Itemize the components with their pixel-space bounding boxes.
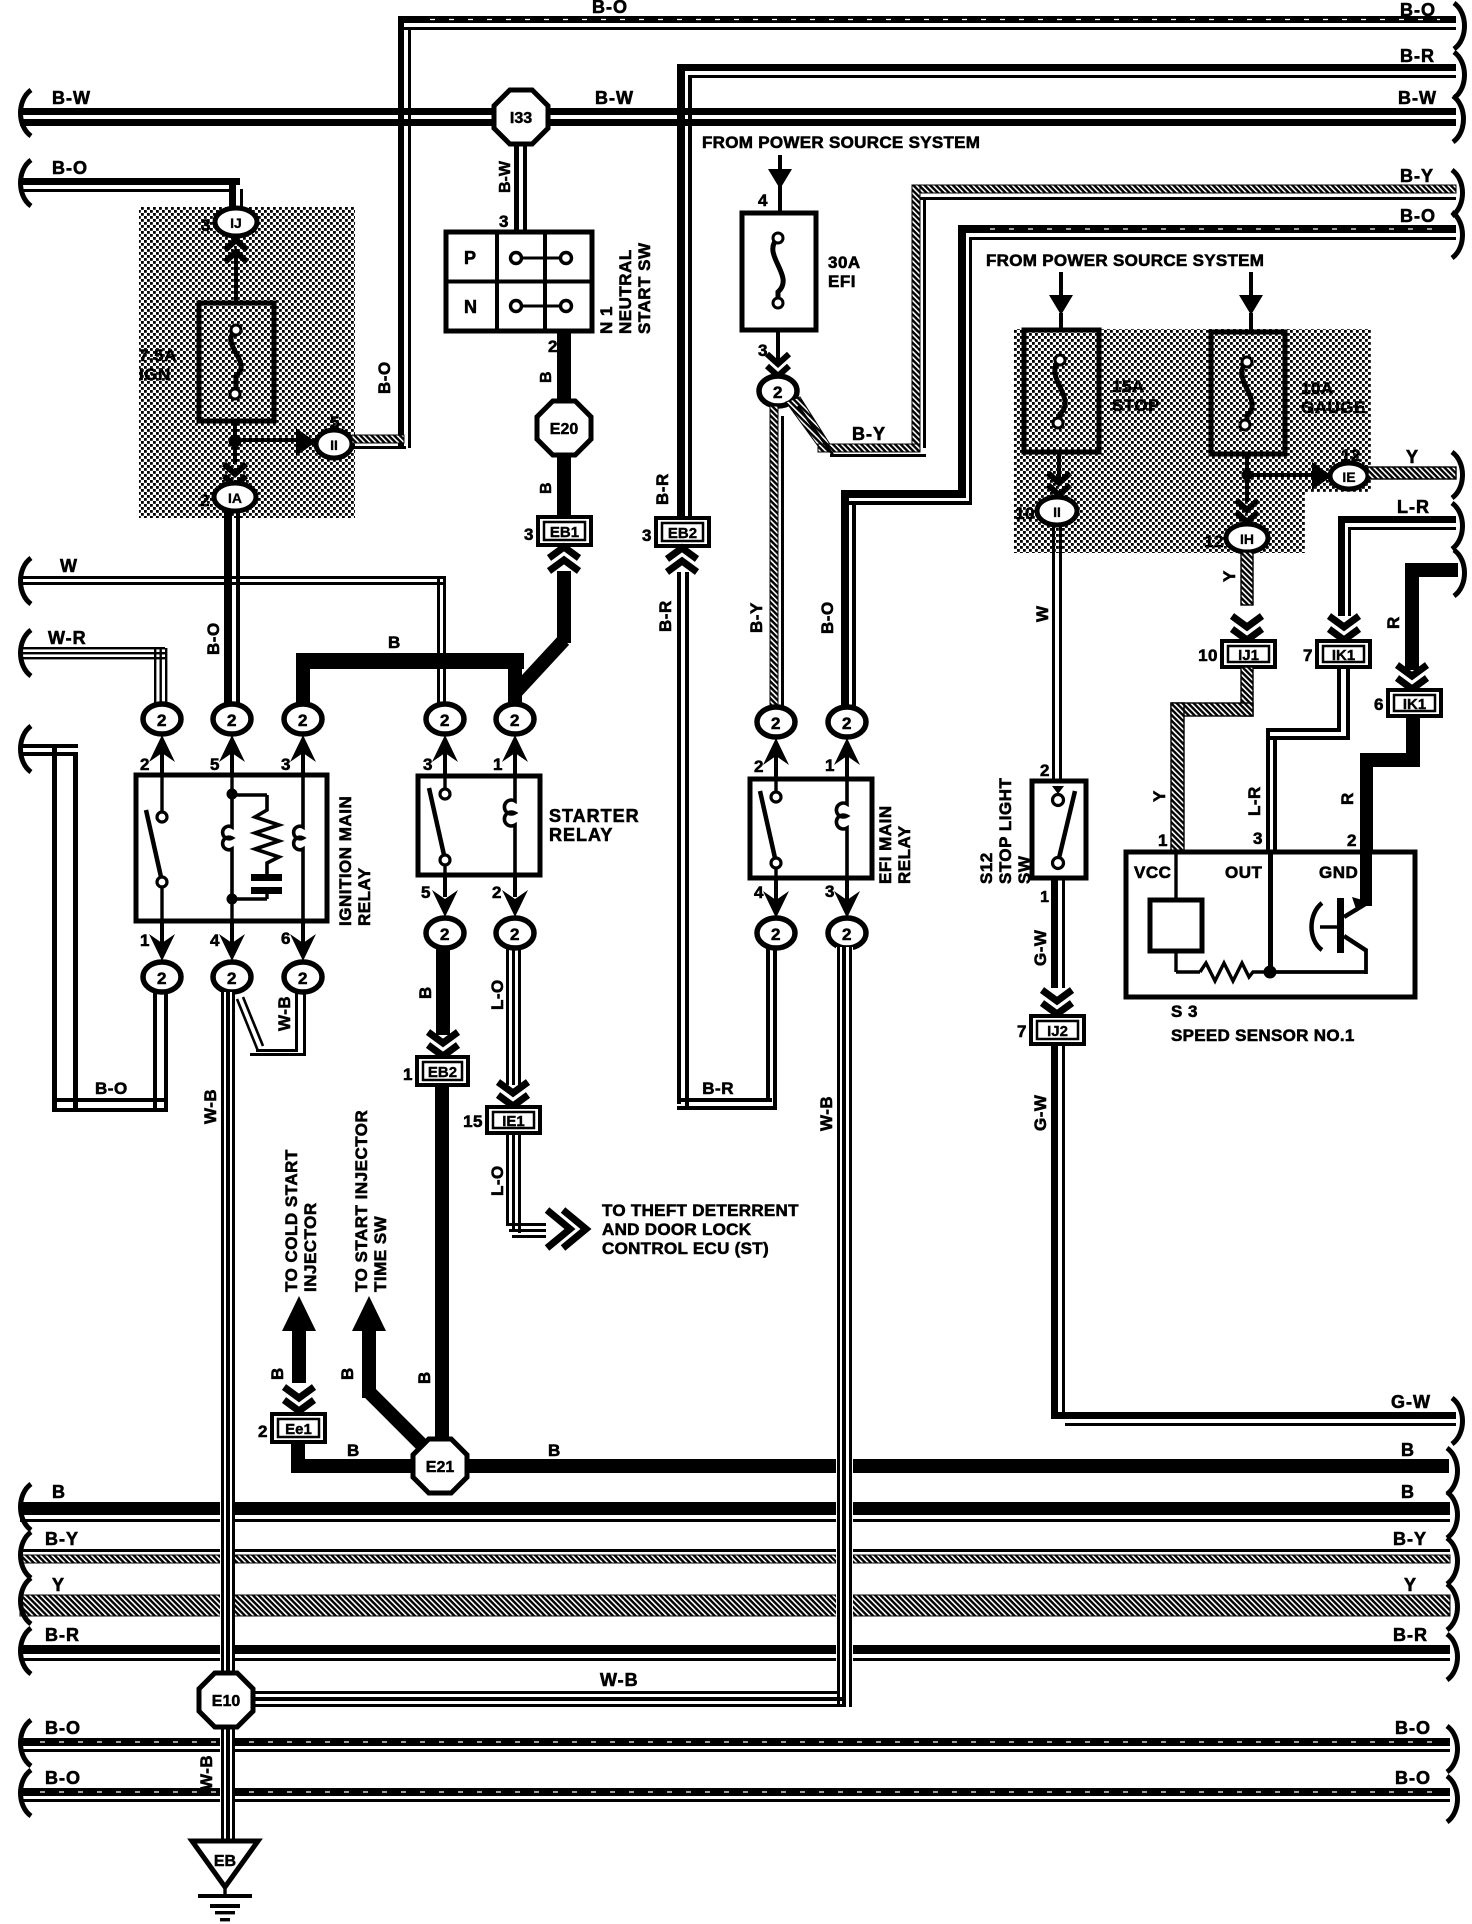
svg-text:3: 3 <box>1253 829 1263 848</box>
ignition relay coil 2 <box>294 775 303 921</box>
connector oval IH (gauge down) <box>1226 524 1268 552</box>
svg-text:2: 2 <box>200 491 210 510</box>
wire B from E20 to EB1 <box>557 454 571 517</box>
connector oval 2 (EFI relay pin 1) <box>828 707 866 737</box>
svg-text:EB1: EB1 <box>550 524 579 541</box>
wire B-Y hatched (oval 2 down to EFI relay pin 2) <box>770 406 784 707</box>
svg-text:G-W: G-W <box>1031 1094 1050 1131</box>
svg-text:B-O: B-O <box>818 601 837 634</box>
svg-text:B-R: B-R <box>1393 1625 1428 1645</box>
svg-text:B-W: B-W <box>595 88 634 108</box>
wire R thick (IK1-6 down to speed sensor pin 2) <box>1360 716 1420 852</box>
connector oval 2 (ignition relay pin 5) <box>213 704 251 734</box>
svg-text:B-R: B-R <box>45 1625 80 1645</box>
svg-text:12: 12 <box>1341 446 1361 465</box>
relay: starter relay box <box>418 776 540 875</box>
svg-text:B-O: B-O <box>1400 0 1436 20</box>
svg-text:IJ: IJ <box>230 215 242 231</box>
svg-text:B-Y: B-Y <box>1393 1529 1427 1549</box>
svg-text:W: W <box>60 556 78 576</box>
wire Y hatched (IH to IJ1) + chevron <box>1232 552 1262 640</box>
svg-text:Y: Y <box>1404 1575 1417 1595</box>
wire stub + chevron into oval (EFI pin 4) <box>763 878 789 918</box>
fuse 15A STOP <box>1024 330 1099 452</box>
shaded fuse-block region (15A STOP / 10A GAUGE) <box>1014 329 1371 553</box>
curl (B-O #2 left) <box>21 1770 32 1816</box>
wire W-R (left bus to ignition relay) <box>20 647 167 705</box>
connector oval IA (7.5A fuse bottom) <box>214 483 256 511</box>
connector Ee1 <box>272 1414 325 1442</box>
octagon connector I33 <box>494 90 548 144</box>
svg-text:B: B <box>52 1482 66 1502</box>
curl (top B-O right) <box>1454 3 1465 49</box>
connector EB1 <box>538 517 591 545</box>
svg-text:B-R: B-R <box>656 600 675 632</box>
wire W-B (ign relay pin 4 oval down to E10) <box>220 992 235 1841</box>
svg-text:7.5A: 7.5A <box>139 346 177 365</box>
wire W (II oval down to stop light sw) <box>1052 525 1062 781</box>
curl (R right) <box>1454 550 1465 596</box>
connector oval II (stop light) <box>1037 497 1077 525</box>
svg-text:FROM POWER SOURCE SYSTEM: FROM POWER SOURCE SYSTEM <box>986 251 1264 270</box>
svg-text:SW: SW <box>1015 855 1034 884</box>
svg-text:STOP LIGHT: STOP LIGHT <box>996 777 1015 884</box>
starter relay coil <box>504 776 515 875</box>
curl (B-W right) <box>1453 96 1464 142</box>
svg-text:B-O: B-O <box>1400 206 1436 226</box>
label 15A STOP <box>1112 377 1160 415</box>
svg-text:G-W: G-W <box>1391 1392 1431 1412</box>
wire bus B-O (top) <box>398 16 1456 448</box>
wire + junction below 10A fuse <box>1242 454 1314 481</box>
svg-text:3: 3 <box>642 526 652 545</box>
arrow down to 10A GAUGE fuse <box>1239 272 1263 333</box>
svg-text:W-B: W-B <box>600 1670 639 1690</box>
curl (W-R left) <box>21 630 32 676</box>
arrow down to 30A EFI fuse <box>768 155 792 213</box>
octagon connector E20 <box>537 401 591 455</box>
svg-text:1: 1 <box>493 755 503 774</box>
svg-text:B: B <box>388 633 401 652</box>
svg-text:3: 3 <box>825 882 835 901</box>
svg-text:B: B <box>347 1441 360 1460</box>
curl (L-R right) <box>1452 503 1463 549</box>
octagon connector E10 <box>199 1673 253 1727</box>
arrow down to 15A STOP fuse <box>1049 272 1073 331</box>
curl (B-R bottom right) <box>1447 1634 1458 1680</box>
label TO THEFT DETERRENT AND DOOR LOCK CONTROL ECU (ST) <box>602 1201 799 1258</box>
label 10A GAUGE <box>1301 379 1366 417</box>
connector oval IJ (7.5A fuse top) <box>215 208 257 236</box>
svg-text:10A: 10A <box>1301 379 1334 398</box>
wire bus B-O (bottom #1) <box>20 1738 1450 1752</box>
svg-text:IE1: IE1 <box>502 1113 525 1130</box>
svg-text:EFI MAIN: EFI MAIN <box>876 805 895 884</box>
curl (B bottom left) <box>21 1484 32 1530</box>
svg-text:SPEED SENSOR NO.1: SPEED SENSOR NO.1 <box>1171 1026 1355 1045</box>
wire junction to transistor emitter <box>1270 949 1366 974</box>
connector oval 2 (30A fuse out) <box>759 376 797 406</box>
arrow TO COLD START INJECTOR <box>282 1296 316 1411</box>
ignition relay resistor + capacitor branch <box>232 795 282 899</box>
svg-text:7: 7 <box>1017 1022 1027 1041</box>
svg-text:W-B: W-B <box>201 1089 220 1124</box>
curl (B-O #2 right) <box>1447 1776 1458 1822</box>
curl (top B-R right) <box>1454 52 1465 98</box>
svg-text:N 1: N 1 <box>597 306 616 334</box>
svg-text:3: 3 <box>423 755 433 774</box>
wire bus B-R (top) <box>677 64 1456 518</box>
curl (B-O #1 left) <box>21 1720 32 1766</box>
svg-text:1: 1 <box>140 931 150 950</box>
wire bus B-O (right #2) <box>958 225 1456 504</box>
svg-text:NEUTRAL: NEUTRAL <box>616 249 635 334</box>
connector oval II (fuse block out) <box>316 430 352 458</box>
svg-text:B-O: B-O <box>375 361 394 394</box>
connector oval 2 (starter pin 2 below) <box>496 918 534 948</box>
curl (left B-O) <box>21 160 32 206</box>
svg-text:3: 3 <box>524 525 534 544</box>
connector IJ1 <box>1222 641 1275 667</box>
chevron arrow into oval (ign pin 2) <box>149 735 175 775</box>
svg-text:TO COLD START: TO COLD START <box>282 1149 301 1292</box>
svg-text:B: B <box>268 1367 287 1380</box>
shaded fuse-block region (7.5A IGN) <box>139 207 355 518</box>
connector EB2 (lower) <box>417 1057 468 1085</box>
svg-text:30A: 30A <box>828 253 861 272</box>
svg-text:1: 1 <box>825 756 835 775</box>
curl (B-Y bottom right) <box>1447 1538 1458 1584</box>
fuse 7.5A IGN <box>199 303 274 421</box>
arrow into IE oval <box>1312 462 1332 490</box>
svg-text:IJ2: IJ2 <box>1047 1023 1068 1040</box>
svg-text:N: N <box>464 297 478 317</box>
starter relay switch contact <box>429 776 450 875</box>
svg-text:B-R: B-R <box>702 1079 734 1098</box>
wire bus B-O (bottom #2) <box>20 1788 1450 1802</box>
svg-text:4: 4 <box>754 883 764 902</box>
curl (B-Y bottom left) <box>21 1532 32 1578</box>
svg-text:3: 3 <box>281 755 291 774</box>
svg-text:B: B <box>416 986 435 999</box>
svg-text:EB: EB <box>214 1853 236 1870</box>
svg-text:TIME SW: TIME SW <box>371 1215 390 1292</box>
wire bus B-Y (right) <box>912 185 1456 448</box>
svg-text:2: 2 <box>492 883 502 902</box>
chevron into IK1 (7) <box>1329 616 1359 640</box>
connector EB2 (upper) <box>656 518 709 546</box>
connector oval 2 (starter relay pin 1) <box>496 704 534 734</box>
svg-text:2: 2 <box>548 337 558 356</box>
svg-text:R: R <box>1384 616 1403 629</box>
svg-text:Y: Y <box>52 1575 65 1595</box>
speed sensor resistor <box>1200 963 1270 981</box>
svg-text:3: 3 <box>201 216 211 235</box>
connector IJ2 <box>1031 1016 1084 1044</box>
svg-text:W-B: W-B <box>817 1096 836 1131</box>
svg-text:2: 2 <box>140 755 150 774</box>
wire stub + chevron into oval (ign pin 4) <box>219 921 245 961</box>
svg-text:TO THEFT DETERRENT: TO THEFT DETERRENT <box>602 1201 799 1220</box>
svg-text:IGN: IGN <box>139 365 171 384</box>
curl (E21 bar right) <box>1447 1448 1458 1494</box>
svg-text:RELAY: RELAY <box>549 825 613 845</box>
svg-text:STARTER: STARTER <box>549 806 640 826</box>
ignition relay switch contact <box>146 775 167 921</box>
svg-text:B-O: B-O <box>45 1718 81 1738</box>
svg-text:EB2: EB2 <box>428 1064 457 1081</box>
connector oval 2 (starter pin 5 below) <box>426 918 464 948</box>
connector oval 2 (EFI pin 4 below) <box>757 918 795 948</box>
connector IK1 (6) <box>1388 690 1441 716</box>
svg-text:B-O: B-O <box>45 1768 81 1788</box>
connector oval 2 (EFI relay pin 2) <box>757 707 795 737</box>
curl (B-W left) <box>21 90 32 136</box>
svg-text:B: B <box>1401 1482 1415 1502</box>
svg-text:15: 15 <box>463 1112 483 1131</box>
svg-text:IJ1: IJ1 <box>1238 647 1259 664</box>
connector oval 2 (ignition relay pin 2) <box>143 704 181 734</box>
svg-text:B: B <box>1401 1440 1415 1460</box>
wire stub + chevron into oval (ign pin 1) <box>149 921 175 961</box>
svg-text:B-R: B-R <box>653 473 672 505</box>
svg-text:5: 5 <box>421 883 431 902</box>
svg-text:S 3: S 3 <box>1171 1002 1198 1021</box>
label 30A EFI <box>828 253 861 291</box>
svg-text:B-O: B-O <box>95 1079 128 1098</box>
connector oval 2 (ignition relay pin 3) <box>284 704 322 734</box>
wire Y hatched (IJ1 down to speed sensor pin 1) <box>1171 667 1253 852</box>
svg-text:1: 1 <box>1040 889 1049 906</box>
svg-text:Y: Y <box>1406 447 1419 467</box>
wire B-O (left edge down to relay pin 1) <box>20 744 168 1112</box>
svg-text:AND DOOR LOCK: AND DOOR LOCK <box>602 1220 752 1239</box>
svg-text:B-O: B-O <box>592 0 628 17</box>
chevron arrow into oval (EFI pin 1) <box>834 738 860 779</box>
wire stub + chevron into oval (ign pin 6) <box>290 921 316 961</box>
chevron arrow into oval (ign pin 5) <box>219 735 245 775</box>
svg-text:B: B <box>538 371 555 383</box>
curl (B-O #1 right) <box>1447 1726 1458 1772</box>
svg-text:6: 6 <box>1374 695 1384 714</box>
svg-text:2: 2 <box>1040 761 1050 780</box>
curl (Y bottom left) <box>21 1578 32 1624</box>
curl (W left) <box>21 558 32 604</box>
svg-text:B-Y: B-Y <box>45 1529 79 1549</box>
neutral start switch N 1 <box>446 232 592 331</box>
svg-text:START SW: START SW <box>635 242 654 334</box>
svg-text:R: R <box>1338 792 1357 805</box>
svg-text:L-O: L-O <box>488 979 507 1010</box>
relay: ignition main relay box <box>136 775 327 921</box>
svg-text:B-R: B-R <box>1400 46 1435 66</box>
svg-text:IGNITION MAIN: IGNITION MAIN <box>336 796 355 926</box>
relay: EFI main relay box <box>750 779 872 878</box>
svg-text:W-B: W-B <box>197 1755 216 1790</box>
svg-text:B-O: B-O <box>1395 1718 1431 1738</box>
octagon connector E21 <box>413 1439 467 1493</box>
arrow TO START INJECTOR TIME SW <box>352 1296 424 1447</box>
wire bus B-O (left, to 7.5A fuse) <box>20 178 243 214</box>
wire B from EB1 down to relay bar <box>514 571 571 694</box>
svg-text:5: 5 <box>330 413 340 432</box>
fuse 10A GAUGE <box>1211 332 1285 454</box>
svg-text:B-O: B-O <box>204 622 223 655</box>
svg-text:L-O: L-O <box>488 1165 507 1196</box>
svg-text:B-O: B-O <box>1395 1768 1431 1788</box>
svg-text:3: 3 <box>499 212 509 231</box>
chevron into IK1 (6) <box>1397 665 1427 689</box>
wire B (Ee1 down to E21 bar and right) <box>291 1442 1449 1473</box>
wire B-R (EB2 down, U to EFI relay pin 4) <box>677 572 777 1110</box>
connector IK1 (7) <box>1317 641 1370 667</box>
svg-text:2: 2 <box>1347 831 1357 850</box>
svg-text:OUT: OUT <box>1225 863 1263 882</box>
svg-text:TO START INJECTOR: TO START INJECTOR <box>352 1110 371 1292</box>
wire bus Y (bottom) <box>20 1595 1450 1616</box>
wire L-R (IK1 down to speed sensor pin 3) <box>1266 667 1350 852</box>
svg-text:2: 2 <box>258 1422 268 1441</box>
wire B thick (EB2 lower down to E21) <box>435 1085 449 1445</box>
wire + chevron into oval 2 (below 30A fuse) <box>767 330 789 376</box>
label TO COLD START INJECTOR (rotated) <box>282 1149 320 1292</box>
label STARTER RELAY <box>549 806 640 845</box>
wire bus B-Y (bottom) <box>20 1549 1450 1563</box>
wire + chevron into IH oval <box>1236 477 1258 522</box>
curl (B-Y right) <box>1452 170 1463 216</box>
switch: stop light switch S12 <box>1032 781 1086 878</box>
chevron arrow + IA oval below junction <box>224 446 246 486</box>
svg-text:6: 6 <box>281 929 291 948</box>
svg-text:B-W: B-W <box>497 160 514 193</box>
svg-text:B-Y: B-Y <box>852 424 886 444</box>
svg-text:W-B: W-B <box>275 996 294 1031</box>
wire B-O thick (bus #2 to EFI relay pin 1) <box>841 490 972 707</box>
connector oval IE (gauge out) <box>1330 463 1368 489</box>
svg-text:CONTROL ECU (ST): CONTROL ECU (ST) <box>602 1239 769 1258</box>
svg-text:B-W: B-W <box>1398 88 1437 108</box>
svg-text:II: II <box>330 437 338 453</box>
wire B bar (EB1 to ignition pin 3 / starter pin 1) <box>296 653 524 706</box>
svg-text:IK1: IK1 <box>1332 647 1355 664</box>
label S12 STOP LIGHT SW (rotated) <box>977 777 1034 884</box>
wire bus B-R (bottom) <box>20 1645 1450 1661</box>
svg-text:P: P <box>464 248 477 268</box>
svg-text:IH: IH <box>1240 531 1254 547</box>
connector oval 2 (ign pin 4 below) <box>213 962 251 992</box>
svg-text:B-W: B-W <box>52 88 91 108</box>
EFI relay coil <box>836 779 847 878</box>
svg-text:15A: 15A <box>1112 377 1145 396</box>
speed sensor box S 3 <box>1126 852 1415 997</box>
chevron into IJ2 <box>1042 990 1072 1014</box>
svg-text:EB2: EB2 <box>668 525 697 542</box>
wire + junction below fuse <box>229 421 298 448</box>
svg-text:L-R: L-R <box>1245 786 1264 816</box>
wire Y hatched (IE to right edge) <box>1368 467 1456 479</box>
EFI relay switch contact <box>760 779 781 878</box>
chevron arrow into IJ + wire <box>225 240 247 305</box>
svg-text:2: 2 <box>754 757 764 776</box>
svg-text:RELAY: RELAY <box>355 867 374 926</box>
svg-text:W: W <box>1033 605 1052 622</box>
wire W-B (ign relay pin 6 oval joining down) <box>237 992 306 1056</box>
svg-text:IE: IE <box>1342 469 1355 485</box>
connector IE1 <box>487 1107 540 1133</box>
chevron into EB2 lower <box>428 1032 458 1056</box>
wire bus B-W (top) <box>20 108 1456 126</box>
wire B-Y hatched (bus to oval 2, diagonal) <box>786 397 926 457</box>
svg-text:VCC: VCC <box>1134 863 1171 882</box>
chevron arrow into oval (starter pin 1) <box>502 735 528 776</box>
svg-text:Y: Y <box>1220 570 1239 582</box>
svg-text:E20: E20 <box>550 421 579 438</box>
transistor (speed sensor output) <box>1312 852 1373 953</box>
wire G-W (sw to IJ2) <box>1051 878 1065 988</box>
svg-text:W-R: W-R <box>48 628 87 648</box>
svg-text:10: 10 <box>1015 504 1035 523</box>
connector oval 2 (ign pin 6 below) <box>284 962 322 992</box>
svg-text:1: 1 <box>403 1065 413 1084</box>
svg-text:EFI: EFI <box>828 272 856 291</box>
svg-text:B: B <box>538 482 555 494</box>
ground triangle EB <box>192 1841 258 1887</box>
connector oval 2 (starter relay pin 3) <box>426 704 464 734</box>
svg-text:1: 1 <box>1158 831 1168 850</box>
fuse 30A EFI <box>742 213 816 330</box>
wire B from neutral start sw to E20 <box>557 331 571 402</box>
arrow to theft deterrent ECU <box>547 1210 586 1248</box>
svg-text:STOP: STOP <box>1112 396 1160 415</box>
wire B thick (starter pin 5 oval to EB2 lower) <box>436 947 450 1035</box>
label N 1 NEUTRAL START SW (rotated) <box>597 242 654 334</box>
wire bus B (bottom #2) <box>20 1502 1450 1522</box>
wire OUT pin to junction <box>1268 852 1273 972</box>
svg-text:GAUGE: GAUGE <box>1301 398 1366 417</box>
wire stub + chevron into oval (starter pin 5) <box>432 875 458 917</box>
wire W-B (EFI pin 3 oval down to E10 horizontal) <box>252 947 853 1707</box>
chevron arrow into oval (starter pin 3) <box>432 735 458 776</box>
svg-text:B-Y: B-Y <box>1400 166 1434 186</box>
svg-text:G-W: G-W <box>1031 929 1050 966</box>
connector oval 2 (EFI pin 3 below) <box>828 918 866 948</box>
chevron arrow into EB2 <box>667 548 697 572</box>
svg-text:E21: E21 <box>426 1459 455 1476</box>
wire L-O (starter pin 2 oval to IE1) <box>506 947 521 1085</box>
svg-text:10: 10 <box>1198 646 1218 665</box>
svg-text:IK1: IK1 <box>1403 696 1426 713</box>
svg-text:4: 4 <box>210 931 220 950</box>
svg-text:L-R: L-R <box>1397 497 1430 517</box>
label IGNITION MAIN RELAY (rotated) <box>336 796 374 926</box>
svg-text:12: 12 <box>1204 532 1224 551</box>
svg-text:Ee1: Ee1 <box>285 1421 312 1438</box>
chevron arrow into oval (ign pin 3) <box>290 735 316 775</box>
svg-text:GND: GND <box>1319 863 1358 882</box>
wire stub + chevron into oval (starter pin 2) <box>502 875 528 917</box>
curl (Y right) <box>1452 452 1463 498</box>
wire W (left bus to starter relay) <box>20 576 446 705</box>
ground symbol <box>198 1887 252 1921</box>
svg-text:I33: I33 <box>510 110 532 127</box>
curl (G-W right) <box>1452 1398 1463 1444</box>
wire G-W (IJ2 down and right to edge) <box>1051 1044 1456 1426</box>
svg-text:S12: S12 <box>977 852 996 884</box>
chevron into IE1 <box>498 1082 528 1106</box>
label EFI MAIN RELAY (rotated) <box>876 805 914 884</box>
chevron arrow into oval (EFI pin 2) <box>763 738 789 779</box>
svg-text:B-O: B-O <box>52 158 88 178</box>
